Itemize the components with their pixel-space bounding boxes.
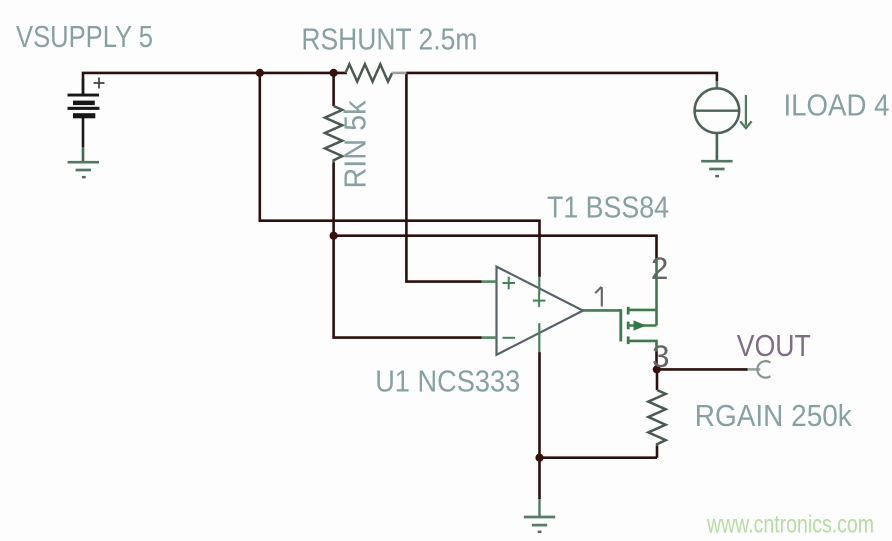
ground at ILOAD: [701, 161, 732, 169]
op-amp minus input stub: [482, 336, 497, 339]
svg-text:2: 2: [651, 250, 669, 286]
current source ILOAD circle: [695, 88, 740, 133]
junction node dot ground node: [535, 454, 543, 462]
ground main at op-amp V-: [524, 517, 555, 525]
wire top rail from battery to RSHUNT left: [83, 73, 347, 95]
transistor T1 drain-body vertical: [655, 310, 658, 326]
wire op-amp V- down to ground node: [538, 352, 541, 499]
wire sense node to transistor top: [334, 236, 657, 259]
battery top lead black: [82, 79, 85, 95]
wire bottom rail RGAIN to ground node: [540, 456, 658, 459]
VOUT terminal gray stub: [748, 368, 761, 371]
wire VOUT node to terminal: [657, 368, 748, 371]
wire ground lead green: [538, 499, 540, 517]
battery plus sign: [94, 78, 105, 89]
op-amp supply plus mark: [533, 294, 546, 307]
ILOAD chord: [695, 110, 740, 112]
svg-text:VSUPPLY 5: VSUPPLY 5: [16, 19, 153, 54]
wire RIN bottom to minus input: [334, 163, 482, 338]
transistor T1 source stub: [628, 341, 656, 352]
svg-text:T1 BSS84: T1 BSS84: [547, 189, 669, 224]
op-amp plus mark: [503, 277, 516, 290]
ILOAD arrow: [745, 95, 747, 126]
ILOAD top lead: [716, 81, 719, 89]
op-amp output wire to gate: [583, 309, 621, 312]
op-amp minus mark: [503, 337, 516, 339]
svg-text:RSHUNT 2.5m: RSHUNT 2.5m: [301, 22, 477, 57]
ILOAD bottom lead: [716, 133, 719, 161]
op-amp V- pin green segment: [538, 323, 540, 352]
wire RIN top lead: [332, 73, 335, 106]
svg-text:ILOAD 4: ILOAD 4: [784, 88, 890, 123]
wire battery bottom lead: [82, 118, 85, 147]
transistor T1 body stub with arrow: [628, 324, 656, 327]
svg-text:3: 3: [652, 338, 670, 374]
transistor T1 drain lead green: [655, 258, 658, 310]
svg-text:RIN 5k: RIN 5k: [338, 100, 373, 188]
resistor RSHUNT 2.5m: [346, 64, 393, 81]
transistor T1 gate bar: [619, 309, 622, 341]
junction node dot at 334,73: [330, 69, 338, 77]
pin 1 label: [595, 287, 602, 307]
junction node dot VOUT node: [653, 365, 661, 373]
wire transistor source to VOUT node: [655, 351, 658, 369]
transistor T1 channel ticks: [627, 307, 630, 344]
op-amp V+ pin green segment: [538, 277, 540, 295]
transistor T1 drain stub: [628, 309, 656, 312]
svg-text:VOUT: VOUT: [737, 328, 811, 363]
svg-text:www.cntronics.com: www.cntronics.com: [706, 511, 874, 539]
svg-text:RGAIN 250k: RGAIN 250k: [695, 398, 852, 433]
junction node dot at 260,73: [256, 69, 264, 77]
svg-text:U1 NCS333: U1 NCS333: [375, 364, 520, 399]
resistor RGAIN 250k: [648, 390, 665, 446]
op-amp U1 triangle: [497, 267, 584, 355]
junction node dot sense node: [330, 232, 338, 240]
resistor RIN 5k: [325, 106, 342, 163]
wire top rail RSHUNT right to ILOAD: [406, 73, 717, 81]
wire VOUT node down to RGAIN: [656, 369, 659, 390]
ground at battery: [68, 162, 99, 170]
RSHUNT gray lead: [392, 72, 406, 75]
wire supply branch x=260 down and across to op-amp V+: [260, 73, 540, 277]
wire RGAIN bottom lead: [656, 446, 659, 458]
op-amp plus input stub: [482, 280, 497, 283]
wire from shunt right down to plus input: [406, 73, 481, 282]
VOUT terminal arc: [757, 361, 770, 378]
battery V1 VSUPPLY plates: [68, 94, 100, 119]
